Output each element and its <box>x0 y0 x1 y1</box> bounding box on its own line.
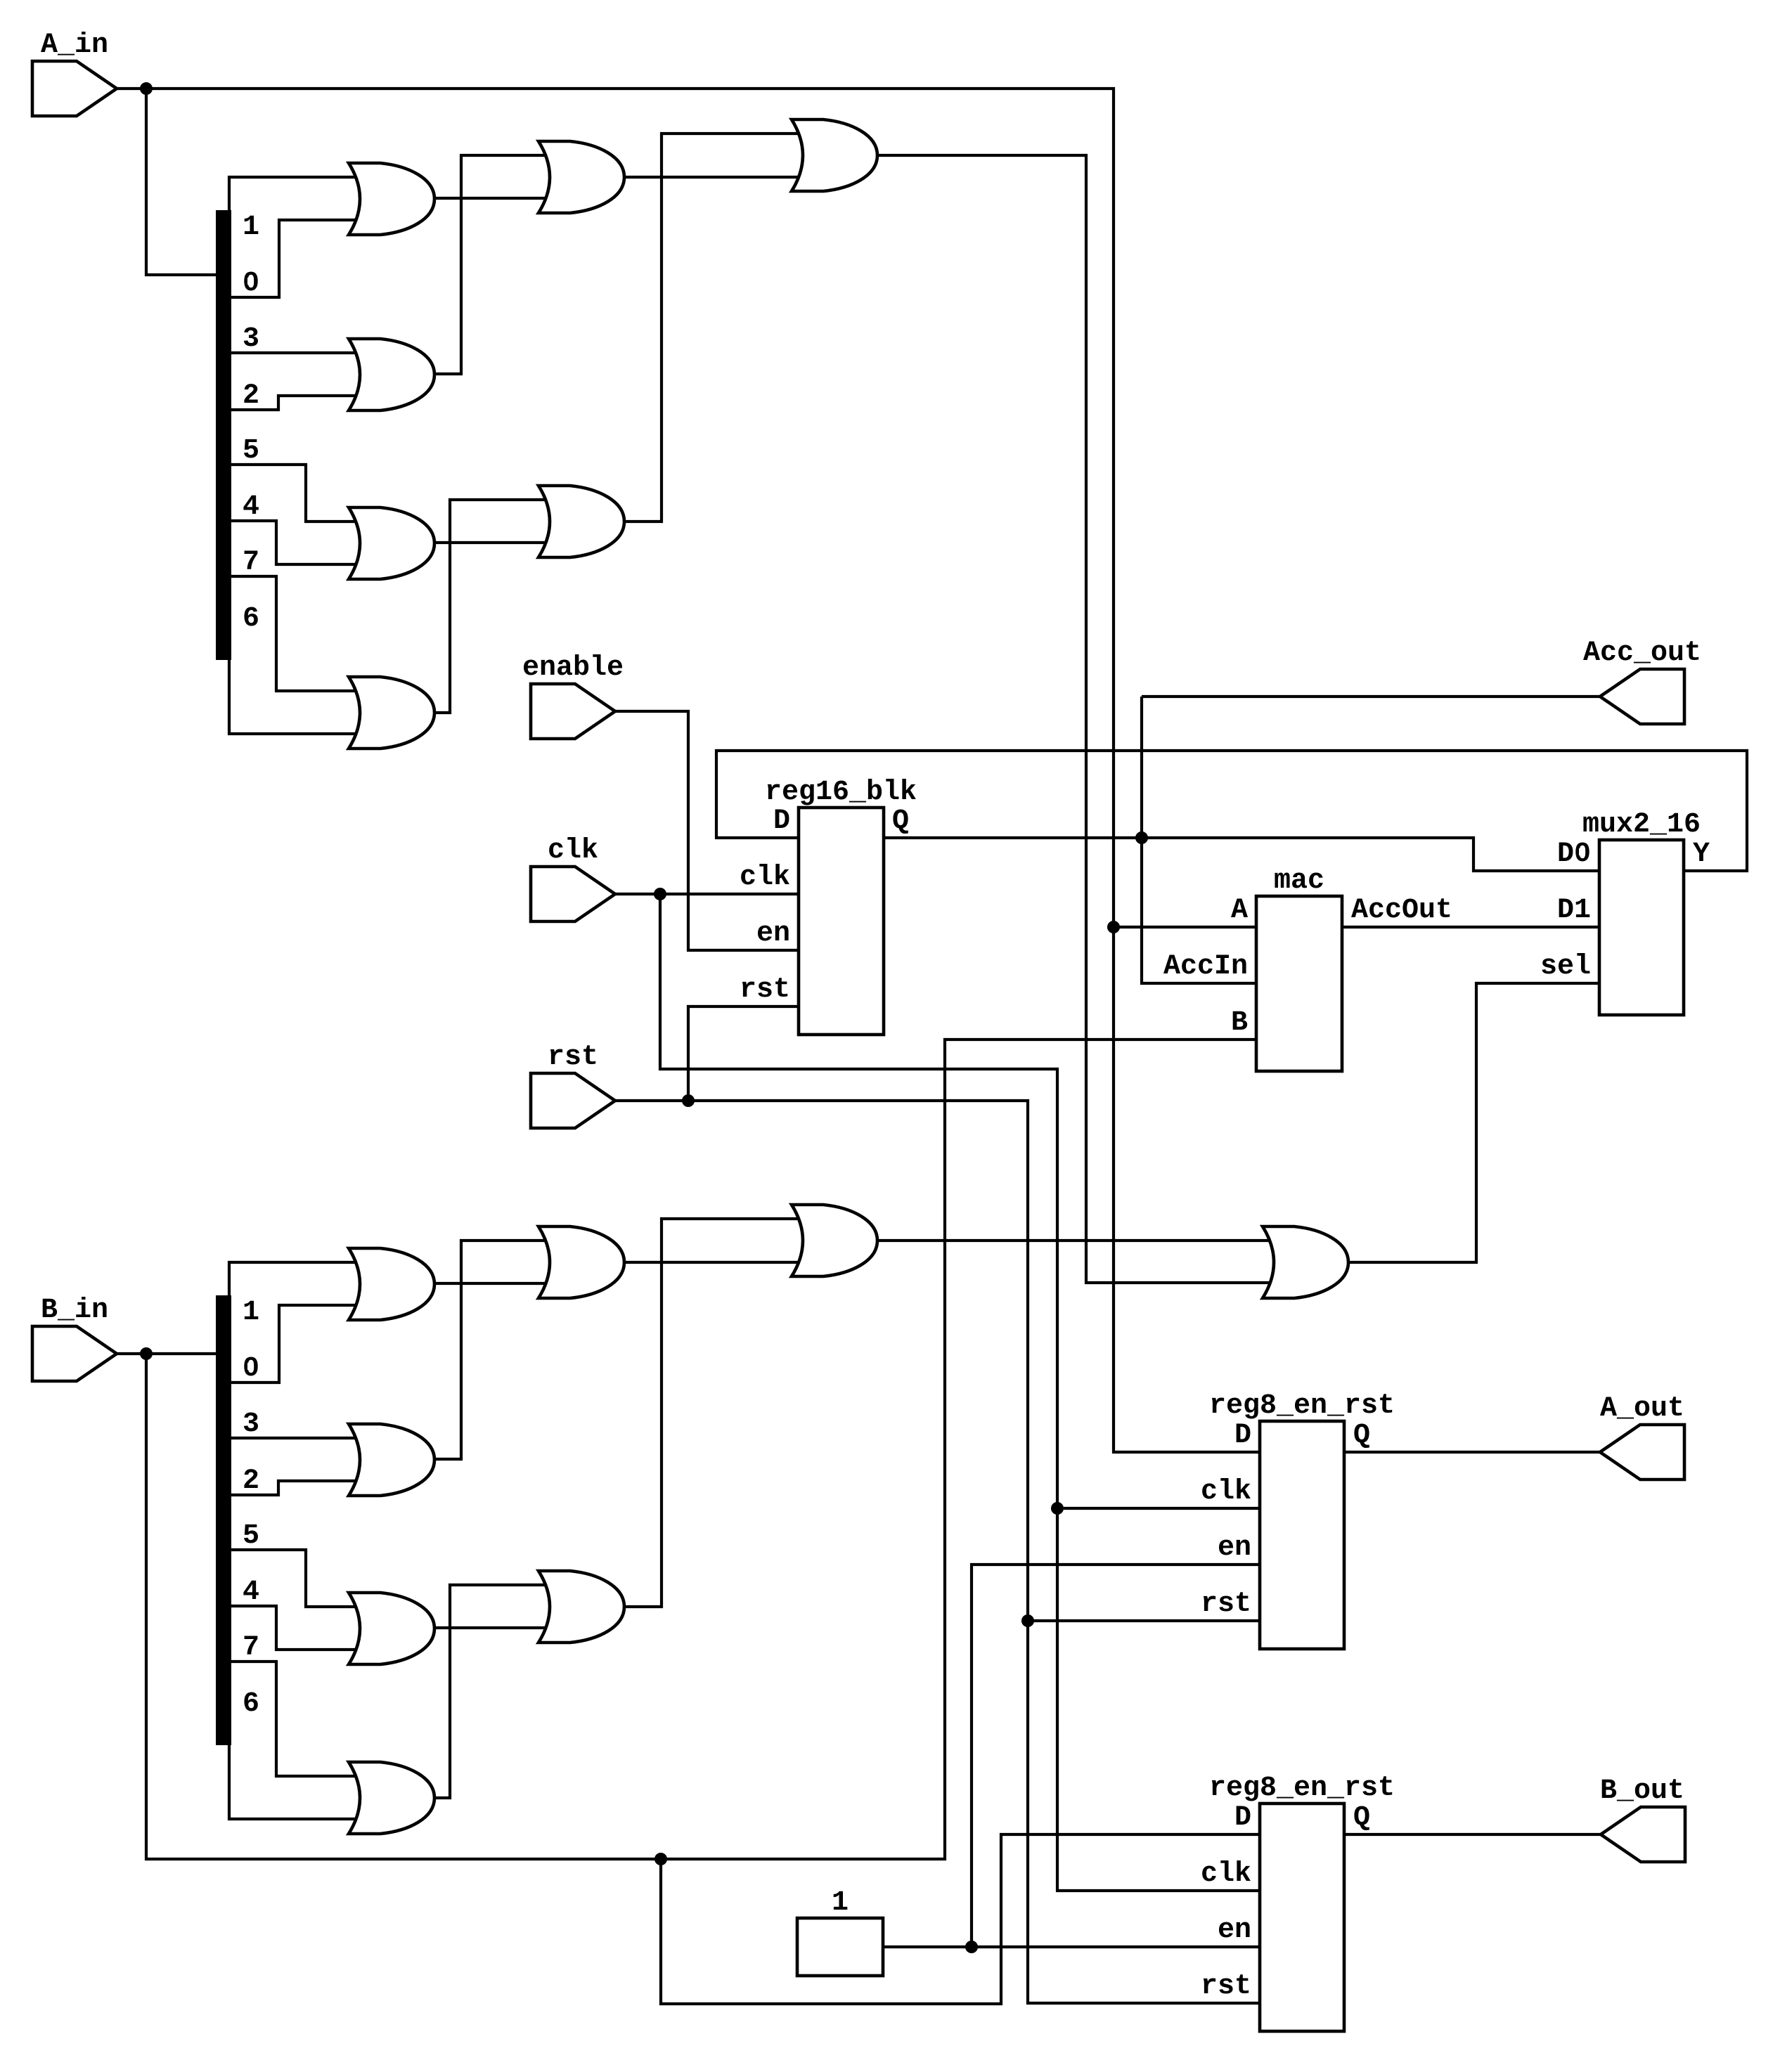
wire rst to reg16 rst <box>688 1006 799 1101</box>
junction rst / reg8 A <box>1021 1614 1034 1627</box>
input port B_in <box>32 1326 117 1381</box>
wire A bit0 <box>231 220 359 297</box>
svg-text:2: 2 <box>243 380 259 412</box>
svg-text:D: D <box>1234 1420 1251 1451</box>
svg-text:mac: mac <box>1274 865 1324 897</box>
svg-text:7: 7 <box>243 547 259 578</box>
or-gate OR1 (A bits 1,0) <box>349 163 434 235</box>
wire B bit5 <box>231 1550 359 1607</box>
or-gate OR9 (B bits 3,2) <box>349 1424 434 1496</box>
svg-text:clk: clk <box>1201 1476 1251 1508</box>
svg-text:3: 3 <box>243 1409 259 1440</box>
wire OR7 out to OR15 <box>877 155 1273 1283</box>
junction clk / reg8 A <box>1051 1502 1064 1515</box>
svg-text:enable: enable <box>522 652 624 684</box>
junction A_in <box>140 82 153 95</box>
wire OR4 out <box>434 500 549 713</box>
output port Acc_out <box>1600 669 1684 724</box>
svg-text:6: 6 <box>243 603 259 635</box>
wire A_in to mac A <box>1114 926 1256 928</box>
junction const1 <box>965 1941 978 1953</box>
svg-text:rst: rst <box>1201 1588 1251 1620</box>
junction clk <box>654 888 666 900</box>
wire B bit1 <box>229 1262 359 1300</box>
wire Q to Acc_out port <box>1142 695 1600 698</box>
zero glyph patch B bit0 <box>247 1363 254 1370</box>
svg-text:mux2_16: mux2_16 <box>1582 809 1701 841</box>
output port B_out <box>1601 1807 1685 1862</box>
wire OR10 out <box>434 1626 549 1629</box>
svg-text:1: 1 <box>243 1297 259 1328</box>
or-gate OR5 <box>538 141 624 213</box>
svg-text:en: en <box>1218 1915 1251 1946</box>
svg-text:D1: D1 <box>1557 895 1591 926</box>
block reg8_en_rst B <box>1260 1804 1344 2031</box>
or-gate OR15 (sel) <box>1263 1226 1348 1298</box>
svg-text:Q: Q <box>892 805 909 837</box>
or-gate OR2 (A bits 3,2) <box>349 339 434 410</box>
wire OR6 out <box>624 134 802 522</box>
wire mac AccOut to mux D1 <box>1342 926 1599 928</box>
input port rst <box>531 1073 615 1128</box>
wire A_in bus: port to reg8 D <box>117 89 1260 1452</box>
svg-text:D0: D0 <box>1557 838 1591 870</box>
wire OR5 out <box>624 176 802 179</box>
junction B_in low <box>654 1853 667 1865</box>
wire B bit6 <box>229 1742 359 1819</box>
svg-text:clk: clk <box>1201 1858 1251 1890</box>
svg-text:AccOut: AccOut <box>1351 895 1452 926</box>
svg-text:B_in: B_in <box>41 1295 108 1326</box>
svg-text:clk: clk <box>740 862 790 893</box>
wire A bit1 <box>229 177 359 214</box>
zero glyph patch mux D0 <box>1579 848 1585 855</box>
wire rst to reg8 B rst <box>615 1101 1260 2003</box>
junction A bus / mac A <box>1107 921 1120 933</box>
svg-text:reg8_en_rst: reg8_en_rst <box>1209 1390 1395 1422</box>
bus splitter A_in <box>216 210 231 660</box>
wire B bit4 <box>231 1606 359 1650</box>
wire B_in to mac B <box>146 1040 1256 1859</box>
wire Q to mac AccIn <box>1142 697 1256 983</box>
wire B bit2 <box>231 1481 359 1495</box>
wire A bit7 <box>231 576 359 691</box>
wire clk to reg8 B clk <box>660 894 1260 1891</box>
junction Q net <box>1135 831 1148 844</box>
wire A bit2 <box>231 396 359 410</box>
output port A_out <box>1600 1425 1684 1479</box>
svg-text:AccIn: AccIn <box>1163 951 1248 983</box>
wire mux Y to reg16 D <box>716 751 1747 871</box>
wire OR1 out <box>434 197 549 200</box>
bus splitter B_in <box>216 1295 231 1745</box>
or-gate OR14 (B reduce) <box>792 1205 877 1276</box>
svg-text:7: 7 <box>243 1632 259 1664</box>
or-gate OR7 (A reduce) <box>792 119 877 191</box>
or-gate OR3 (A bits 5,4) <box>349 507 434 579</box>
zero glyph patch A bit0 <box>247 278 254 285</box>
wire reg16 Q to mux D0 <box>884 838 1599 871</box>
svg-text:en: en <box>756 918 790 950</box>
wire B bit0 <box>231 1305 359 1383</box>
wire reg8 B Q to B_out <box>1344 1833 1601 1836</box>
svg-text:2: 2 <box>243 1465 259 1497</box>
block mux2_16 <box>1599 840 1684 1015</box>
wire clk to reg8 A clk <box>1057 1507 1260 1510</box>
or-gate OR6 <box>538 486 624 557</box>
svg-text:1: 1 <box>243 212 259 243</box>
svg-text:rst: rst <box>548 1042 598 1073</box>
wire OR2 out <box>434 155 549 374</box>
svg-text:D: D <box>1234 1802 1251 1834</box>
input port enable <box>531 684 615 739</box>
wire OR3 out <box>434 541 549 544</box>
input port A_in <box>32 61 117 116</box>
or-gate OR4 (A bits 7,6) <box>349 677 434 749</box>
svg-text:1: 1 <box>832 1887 849 1919</box>
svg-text:A_in: A_in <box>41 30 108 61</box>
wire OR12 out <box>624 1261 802 1264</box>
block reg8_en_rst A <box>1260 1421 1344 1649</box>
junction B_in <box>140 1347 153 1360</box>
svg-text:Q: Q <box>1353 1802 1370 1834</box>
svg-text:clk: clk <box>548 835 598 867</box>
svg-text:Acc_out: Acc_out <box>1583 637 1701 669</box>
or-gate OR13 <box>538 1571 624 1643</box>
wire OR11 out <box>434 1585 549 1798</box>
wire A_in to splitter <box>146 89 216 275</box>
wire reg8 A Q to A_out <box>1344 1451 1600 1453</box>
svg-text:reg16_blk: reg16_blk <box>765 777 917 808</box>
input port clk <box>531 867 615 921</box>
constant 1 <box>797 1918 883 1976</box>
wire OR15 out to mux sel <box>1348 983 1599 1262</box>
wire B bit7 <box>231 1662 359 1776</box>
svg-text:rst: rst <box>740 974 790 1006</box>
svg-text:en: en <box>1218 1532 1251 1564</box>
svg-text:rst: rst <box>1201 1971 1251 2002</box>
wire OR9 out <box>434 1241 549 1459</box>
wire A bit6 <box>229 657 359 734</box>
block mac <box>1256 896 1342 1071</box>
wire B_in to reg8 D <box>661 1834 1260 2004</box>
or-gate OR8 (B bits 1,0) <box>349 1248 434 1320</box>
wire B_in to splitter <box>117 1352 216 1355</box>
wire OR14 out to OR15 <box>877 1239 1273 1242</box>
svg-text:Y: Y <box>1693 838 1710 870</box>
or-gate OR11 (B bits 7,6) <box>349 1762 434 1834</box>
svg-text:3: 3 <box>243 323 259 355</box>
svg-text:4: 4 <box>243 491 259 523</box>
svg-text:A_out: A_out <box>1600 1393 1684 1425</box>
wire OR13 out <box>624 1219 802 1607</box>
junction rst <box>682 1094 695 1107</box>
or-gate OR10 (B bits 5,4) <box>349 1593 434 1664</box>
wire const1 to reg8 B en <box>883 1945 1260 1948</box>
wire rst to reg8 A rst <box>1028 1619 1260 1622</box>
svg-text:Q: Q <box>1353 1420 1370 1451</box>
svg-text:reg8_en_rst: reg8_en_rst <box>1209 1773 1395 1804</box>
svg-text:6: 6 <box>243 1688 259 1720</box>
or-gate OR12 <box>538 1226 624 1298</box>
svg-text:5: 5 <box>243 1520 259 1552</box>
wire OR8 out <box>434 1282 549 1285</box>
svg-text:B_out: B_out <box>1600 1775 1684 1807</box>
svg-text:4: 4 <box>243 1576 259 1608</box>
svg-text:sel: sel <box>1540 951 1591 983</box>
svg-text:A: A <box>1231 895 1248 926</box>
wire A bit4 <box>231 521 359 564</box>
wire const1 to reg8 A en <box>972 1565 1260 1947</box>
wire A bit3 <box>231 351 359 354</box>
block reg16_blk <box>799 808 884 1035</box>
svg-text:D: D <box>773 805 790 837</box>
wire A bit5 <box>231 465 359 522</box>
wire enable to reg16 en <box>615 711 799 950</box>
svg-text:5: 5 <box>243 435 259 467</box>
svg-text:B: B <box>1231 1007 1248 1039</box>
wire B bit3 <box>231 1437 359 1439</box>
wire clk to reg16 clk <box>615 893 799 895</box>
